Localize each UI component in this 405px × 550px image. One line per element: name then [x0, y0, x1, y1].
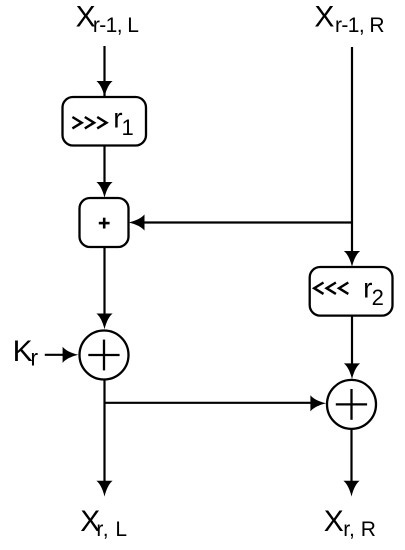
wire adder to xor1 — [103, 247, 105, 316]
adder box + — [80, 198, 129, 247]
node X_{r-1,L} label — [76, 1, 139, 37]
xor gate right (circle plus) — [327, 380, 376, 429]
svg-text:r, L: r, L — [96, 518, 127, 541]
rotate box <<< r2 — [310, 267, 393, 316]
rotate box >>> r1 — [63, 97, 147, 146]
wire branch to xor2 — [105, 402, 313, 404]
wire box R2 to xor2 — [351, 316, 353, 365]
svg-text:2: 2 — [372, 285, 384, 310]
svg-text:r-1, R: r-1, R — [335, 14, 384, 37]
label r2 — [363, 273, 384, 310]
svg-text:r, R: r, R — [343, 518, 376, 541]
xor gate left (circle plus) — [80, 331, 129, 380]
arrowhead box R1 to adder — [96, 182, 112, 198]
svg-text:r-1, L: r-1, L — [93, 14, 138, 37]
node X_{r,L} label — [80, 505, 127, 541]
wire input left vertical — [103, 46, 105, 183]
wire xor1 down to output — [103, 380, 105, 483]
wire right branch to adder — [144, 221, 352, 223]
svg-text:X: X — [314, 1, 334, 34]
svg-text:X: X — [324, 505, 344, 538]
node K_r label — [13, 335, 39, 370]
node X_{r,R} label — [324, 505, 376, 541]
wire input right vertical — [351, 47, 353, 253]
wire xor2 down to output — [350, 429, 352, 482]
arrowhead into box R1 — [96, 81, 112, 97]
svg-text:1: 1 — [122, 115, 134, 140]
wire Kr to xor1 — [45, 354, 65, 356]
svg-text:r: r — [30, 344, 38, 370]
plus sign in adder — [99, 218, 110, 229]
label r1 — [113, 103, 134, 140]
chevrons <<< — [314, 283, 348, 294]
node X_{r-1,R} label — [314, 1, 384, 37]
chevrons >>> — [72, 117, 106, 128]
